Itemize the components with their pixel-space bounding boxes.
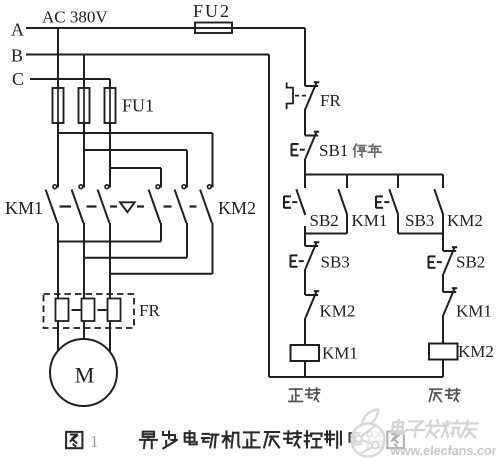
wire [304, 269, 306, 295]
fuse FU1 c [105, 88, 116, 123]
watermark logo [352, 410, 385, 457]
watermark brand text [392, 420, 406, 434]
contact KM2 aux seal-in (NO) [434, 189, 443, 215]
label zheng zhuan (forward) [289, 389, 303, 401]
wire phase B bus [26, 54, 269, 56]
wire [442, 360, 444, 378]
wire crossover B to KM2 middle column [84, 149, 187, 151]
svg-text:KM2: KM2 [320, 302, 356, 321]
wire [304, 361, 306, 377]
wire control feed from A [304, 28, 306, 86]
wire phase C drop [109, 79, 111, 88]
wires to motor [57, 321, 59, 352]
svg-text:AC 380V: AC 380V [42, 8, 108, 27]
wire [304, 159, 306, 175]
wire pair bottom rev [398, 233, 443, 235]
thermal relay FR heaters [44, 294, 135, 328]
wire crossover A to KM2 right column [58, 132, 213, 134]
svg-text:SB3: SB3 [405, 211, 434, 230]
svg-text:B: B [11, 46, 23, 66]
wire pair bottom fwd [305, 233, 347, 235]
pushbutton SB1 stop (NC) [305, 135, 318, 137]
wire phase C bus [30, 78, 110, 80]
svg-text:KM1: KM1 [5, 198, 43, 218]
caption figure 1 [66, 432, 82, 448]
svg-text:KM1: KM1 [456, 302, 492, 321]
watermark overlay [0, 0, 1, 1]
pushbutton SB2 start-fwd (NO) [296, 189, 305, 215]
contact KM1 aux seal-in (NO) [338, 189, 347, 215]
wire [442, 274, 444, 292]
svg-text:FU1: FU1 [122, 96, 154, 116]
coil KM1 [291, 345, 320, 361]
wire [442, 315, 444, 344]
wire KM2 outputs down + crossover joins [160, 223, 162, 242]
coil KM2 [429, 344, 458, 360]
svg-text:A: A [11, 20, 24, 40]
wire phase A drop [57, 28, 59, 88]
wire col C down to KM1 contact [109, 123, 111, 188]
wire rev branch [442, 234, 444, 252]
svg-text:KM1: KM1 [322, 344, 358, 363]
wire col B down to KM1 contact [83, 123, 85, 188]
svg-text:SB2: SB2 [310, 211, 339, 230]
svg-text:KM1: KM1 [352, 211, 388, 230]
label ting che [353, 144, 365, 157]
svg-text:SB1: SB1 [319, 141, 348, 160]
svg-text:FR: FR [320, 91, 341, 110]
relay contact FR (NC, thermal) [305, 85, 318, 87]
pushbutton SB2 interlock (NC) [443, 250, 456, 252]
svg-text:www.elecfans.com: www.elecfans.com [389, 443, 496, 458]
svg-text:C: C [12, 69, 24, 89]
svg-text:KM2: KM2 [458, 342, 494, 361]
wire fwd branch [304, 234, 306, 247]
svg-text:FR: FR [139, 301, 160, 320]
wire control return rail from B [268, 55, 270, 378]
wire col A down to KM1 contact [57, 123, 59, 188]
contact KM1 interlock (NC) [443, 291, 456, 293]
motor M [50, 339, 117, 406]
svg-text:FU2: FU2 [193, 1, 231, 21]
svg-text:M: M [75, 363, 95, 388]
pushbutton SB3 start-rev (NO) [389, 189, 398, 215]
fuse FU2 [195, 23, 232, 34]
wire drops to contacts [304, 175, 306, 189]
wire [304, 318, 306, 345]
pushbutton SB3 interlock (NC) [305, 245, 318, 247]
wire phase A bus [26, 27, 305, 29]
svg-text:KM2: KM2 [218, 198, 256, 218]
svg-text:KM2: KM2 [447, 211, 483, 230]
wire crossover C to KM2 left column [110, 167, 161, 169]
wire [304, 109, 306, 136]
wire branch top bus [305, 174, 443, 176]
svg-text:SB3: SB3 [321, 253, 350, 272]
caption title [140, 432, 157, 449]
wire bottom return bus [269, 376, 443, 378]
svg-text:SB2: SB2 [456, 253, 485, 272]
contact KM2 interlock (NC) [305, 294, 318, 296]
mechanical linkage dashes and triangle [60, 205, 72, 207]
fuse FU1 a [53, 88, 64, 123]
wire KM1 outputs down [57, 223, 59, 299]
fuse FU1 b [79, 88, 90, 123]
label fan zhuan (reverse) [429, 389, 441, 402]
svg-text:1: 1 [90, 432, 99, 451]
wire phase B drop [83, 55, 85, 89]
